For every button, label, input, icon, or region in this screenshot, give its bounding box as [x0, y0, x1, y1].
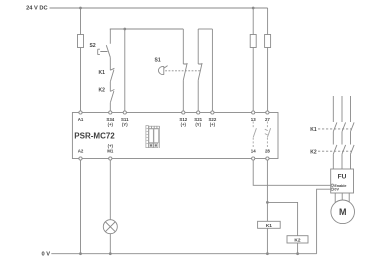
junction dot: [296, 252, 299, 255]
terminal 14: [252, 157, 255, 160]
terminal S21: [197, 111, 200, 114]
junction dot: [266, 252, 269, 255]
node 24V rail: [50, 7, 268, 9]
terminal 28: [266, 157, 269, 160]
terminal M1: [109, 157, 112, 160]
svg-text:M1: M1: [107, 149, 114, 154]
S1 actuator dashed link: [165, 70, 200, 72]
relay module PSR-MC72 box: [72, 113, 278, 159]
svg-text:24 V DC: 24 V DC: [26, 5, 48, 11]
junction dot: [123, 28, 126, 31]
coil K1: [258, 221, 281, 228]
wire 13 drop: [252, 8, 254, 113]
switch S2: [98, 29, 111, 57]
svg-text:(+): (+): [181, 122, 187, 127]
terminal S22: [211, 111, 214, 114]
junction dot: [266, 201, 269, 204]
node S21-S22 bridge: [198, 28, 212, 30]
svg-text:A1: A1: [78, 117, 84, 122]
terminal A2: [79, 157, 82, 160]
contactor K1 dashed link: [318, 128, 352, 130]
terminal S12: [182, 111, 185, 114]
emergency stop S1 contact 1: [183, 29, 187, 113]
svg-text:S1: S1: [155, 58, 161, 64]
svg-text:(+): (+): [108, 122, 114, 127]
terminal S11: [123, 111, 126, 114]
svg-text:(Y): (Y): [122, 122, 128, 127]
contact K1 feedback: [110, 68, 114, 82]
module internal icon: [146, 126, 160, 148]
svg-text:FU: FU: [338, 174, 347, 181]
three phase line L2: [342, 96, 346, 169]
FU enable terminal: [331, 184, 333, 186]
node 0V rail: [51, 253, 316, 255]
contact 13-14 internal: [253, 122, 256, 149]
svg-text:13: 13: [251, 117, 256, 122]
terminal 13: [252, 111, 255, 114]
svg-text:(+): (+): [210, 122, 216, 127]
node S11 rail: [110, 28, 184, 30]
contact 27-28 internal: [265, 122, 271, 149]
emergency stop S1 contact 2: [198, 29, 202, 113]
svg-text:M: M: [339, 207, 347, 217]
svg-text:K2: K2: [310, 149, 317, 155]
wire FU 0V to rail: [317, 189, 331, 254]
svg-text:S2: S2: [90, 43, 96, 49]
wire 14 to FU enable: [253, 160, 331, 185]
wire branch to K2 coil: [267, 202, 297, 253]
coil K2: [287, 236, 308, 243]
svg-text:0 V: 0 V: [41, 252, 50, 258]
svg-text:14: 14: [251, 149, 256, 154]
svg-text:K2: K2: [99, 88, 106, 94]
svg-text:27: 27: [265, 117, 270, 122]
fuse F2: [250, 35, 256, 48]
wire 28 to coils: [266, 160, 268, 254]
FU 0V terminal: [331, 188, 333, 190]
terminal S34: [109, 111, 112, 114]
motor M: [331, 200, 355, 224]
svg-text:K2: K2: [294, 237, 300, 243]
wire 27 drop: [267, 8, 269, 113]
lamp H1: [103, 220, 117, 234]
wire lamp to 0V: [109, 234, 111, 254]
three phase line L3: [351, 96, 355, 169]
junction dot: [109, 252, 112, 255]
wire S2 to K1: [109, 57, 111, 70]
svg-text:(Y): (Y): [195, 122, 201, 127]
svg-text:0V: 0V: [334, 188, 339, 192]
wire S22 drop: [211, 29, 213, 113]
fuse F1: [78, 35, 84, 48]
svg-text:K1: K1: [310, 127, 317, 133]
terminal 27: [266, 111, 269, 114]
drive FU box: [331, 169, 354, 193]
wire K2 to S34: [109, 103, 111, 113]
wire A2 to 0V: [80, 160, 82, 254]
junction dot: [252, 7, 255, 10]
svg-text:K1: K1: [99, 70, 106, 76]
terminal A1: [79, 111, 82, 114]
contactor K2 dashed link: [318, 150, 352, 152]
svg-text:A2: A2: [78, 149, 84, 154]
wire M1 to lamp: [109, 160, 111, 220]
three phase line L1: [333, 96, 337, 169]
wire A1 drop: [80, 8, 82, 113]
svg-text:28: 28: [265, 149, 270, 154]
wire K1 to K2: [109, 82, 111, 92]
junction dot: [79, 252, 82, 255]
svg-text:K1: K1: [266, 223, 272, 229]
contact K2 feedback: [110, 90, 114, 103]
S1 mushroom button: [158, 66, 167, 75]
wire S11 drop: [124, 29, 126, 113]
svg-text:PSR-MC72: PSR-MC72: [74, 131, 115, 140]
wire FU to motor: [335, 193, 349, 204]
fuse F3: [265, 35, 271, 48]
junction dot: [79, 7, 82, 10]
